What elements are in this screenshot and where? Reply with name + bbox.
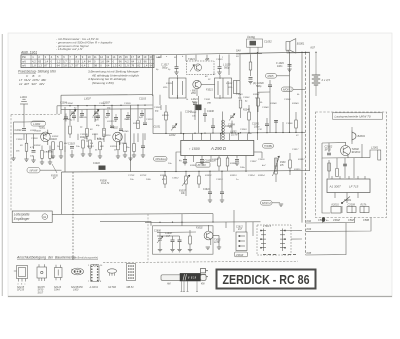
- svg-text:12 d07 9d7 43V: 12 d07 9d7 43V: [19, 82, 45, 86]
- dashed bottom board line: [103, 261, 298, 262]
- svg-text:S817: S817: [38, 291, 44, 294]
- resistor R1050: [257, 98, 260, 106]
- matrix left coil column: [260, 229, 266, 252]
- capacitor CF4: [106, 114, 110, 116]
- svg-text:C1003: C1003: [31, 138, 38, 140]
- svg-text:17: 17: [131, 55, 134, 59]
- wire vertical x309: [308, 52, 310, 170]
- svg-text:L1032: L1032: [169, 135, 176, 137]
- bus wires front-end: [53, 105, 153, 156]
- junction dots y222: [159, 221, 213, 223]
- wire T1051 collector down: [198, 96, 200, 134]
- label (2)C1049: [253, 82, 265, 88]
- output transistor T1602: [204, 225, 219, 247]
- package SF126 outline: [55, 265, 63, 280]
- wire K03 net: [306, 217, 372, 231]
- svg-text:C1608: C1608: [165, 233, 172, 235]
- wire vertical x130 front-end: [130, 106, 132, 172]
- wire left border vertical: [152, 55, 154, 96]
- package GF506 caption: [108, 286, 117, 289]
- svg-text:R1046: R1046: [243, 109, 250, 112]
- resistor R1610: [289, 160, 292, 168]
- label P1008: [280, 162, 286, 167]
- dashed board outline right: [316, 112, 387, 218]
- capacitor C1605 below IC: [183, 160, 187, 162]
- svg-text:ZF 460: ZF 460: [197, 163, 207, 167]
- potentiometer P1007: [182, 175, 190, 186]
- volume pot P1008: [273, 156, 280, 176]
- svg-text:63: 63: [38, 59, 41, 63]
- front-end labels row: [50, 102, 110, 165]
- svg-text:MON 2: MON 2: [262, 201, 271, 205]
- svg-text:C50Z: C50Z: [348, 219, 354, 222]
- label C1054 4n: [228, 123, 235, 129]
- labels IF strip: [154, 109, 251, 137]
- ground C1049b: [287, 69, 291, 71]
- capacitor C1011: [143, 123, 147, 125]
- svg-text:1,4: 1,4: [44, 59, 48, 63]
- tuner dashed box: [187, 61, 215, 75]
- svg-text:NF/AF: NF/AF: [30, 169, 38, 173]
- svg-text:R1614: R1614: [258, 174, 265, 177]
- svg-text:10: 10: [88, 55, 91, 59]
- svg-text:L2001: L2001: [371, 145, 379, 149]
- svg-text:LF 715: LF 715: [349, 185, 359, 189]
- transistor T2002: [341, 142, 351, 158]
- wire CF1: [73, 113, 75, 121]
- wire drops into filter area: [182, 210, 246, 232]
- ground C1057: [248, 82, 252, 84]
- svg-text:TONBL: TONBL: [264, 144, 273, 148]
- svg-text:R1047: R1047: [253, 93, 260, 96]
- svg-text:A 290 D: A 290 D: [210, 146, 226, 151]
- wire C1019: [142, 133, 144, 155]
- voltage table: [21, 55, 154, 68]
- wire vertical x59: [61, 172, 63, 214]
- ground row g5: [88, 154, 92, 156]
- bus mid y133: [153, 132, 306, 133]
- capacitor C1031: [193, 103, 197, 105]
- svg-text:C1004: C1004: [66, 102, 73, 105]
- svg-text:C1616: C1616: [258, 159, 265, 161]
- capacitor CF5: [114, 118, 118, 120]
- label L1002: [31, 121, 46, 126]
- svg-text:↑ 1500: ↑ 1500: [189, 147, 200, 151]
- svg-text:42: 42: [119, 64, 122, 68]
- svg-text:84: 84: [106, 59, 109, 63]
- label DIN tag: [154, 157, 168, 162]
- svg-text:L1001: L1001: [20, 96, 28, 99]
- output transformer U1001: [247, 37, 263, 54]
- svg-text:L1007: L1007: [84, 98, 91, 101]
- package GF506 outline: [107, 269, 116, 276]
- ground row g2: [59, 156, 63, 158]
- svg-text:B2001: B2001: [358, 134, 366, 138]
- package TO18 top view: [72, 268, 84, 275]
- svg-text:C1056: C1056: [286, 123, 293, 125]
- label TEMP rounded: [263, 144, 274, 149]
- svg-text:R1008: R1008: [133, 123, 140, 125]
- svg-text:R1701: R1701: [140, 175, 147, 177]
- svg-text:82: 82: [137, 64, 140, 68]
- svg-text:C1613: C1613: [216, 179, 223, 181]
- IC pins bottom: [176, 152, 246, 165]
- resistor R2005 box: [360, 207, 369, 213]
- wire matrix to right: [285, 230, 302, 239]
- package SF235 caption: [38, 286, 46, 295]
- svg-text:C1007: C1007: [99, 103, 106, 105]
- svg-text:64: 64: [106, 64, 109, 68]
- svg-text:1,9: 1,9: [125, 64, 129, 68]
- svg-text:19: 19: [143, 55, 146, 59]
- wire R1050: [258, 92, 271, 112]
- heading Anschlussbelegung: [16, 256, 98, 260]
- label T1602: [196, 228, 221, 245]
- capacitor C2005: [343, 164, 347, 166]
- svg-text:96: 96: [119, 59, 122, 63]
- wire vertical x289: [289, 53, 291, 134]
- svg-text:28%: 28%: [227, 87, 232, 89]
- svg-text:F1602: F1602: [196, 228, 203, 230]
- wire bus y222: [145, 214, 261, 236]
- svg-text:11: 11: [94, 55, 97, 59]
- ground C1610: [208, 200, 212, 202]
- svg-text:C50B: C50B: [363, 219, 369, 222]
- capacitor C1610: [208, 192, 212, 194]
- capacitor C2003: [327, 153, 331, 155]
- svg-text:T1021: T1021: [188, 58, 195, 61]
- svg-text:C1014: C1014: [80, 133, 87, 136]
- table caption ABB.1961: [20, 50, 37, 54]
- svg-text:SA8: SA8: [236, 50, 241, 53]
- IF transformer F1021: [169, 78, 186, 98]
- svg-text:1,3: 1,3: [38, 64, 42, 68]
- svg-text:MB 84: MB 84: [127, 286, 135, 289]
- capacitor C1017: [175, 67, 179, 69]
- speaker matrix connector box: [257, 225, 291, 255]
- svg-text:C1043: C1043: [236, 93, 243, 96]
- svg-text:28B: 28B: [204, 58, 210, 61]
- svg-text:10,7M: 10,7M: [231, 134, 237, 136]
- wire C1051: [267, 118, 283, 133]
- svg-text:R1048: R1048: [270, 102, 277, 105]
- resistor R2002: [336, 169, 339, 177]
- rod labels: [166, 282, 206, 285]
- svg-text:25u: 25u: [125, 147, 130, 149]
- wire antenna to board: [14, 120, 53, 162]
- resistor R1051: [295, 120, 298, 128]
- package SF215 caption: [17, 286, 25, 292]
- resistor R1605 below IC: [218, 158, 221, 166]
- svg-text:MON 1: MON 1: [283, 88, 292, 92]
- svg-text:C1001: C1001: [15, 129, 23, 132]
- svg-text:C1023: C1023: [216, 59, 223, 61]
- resistor R1020: [124, 144, 127, 152]
- electrolytic blob K02 line: [322, 217, 325, 222]
- svg-text:SF30 D: SF30 D: [352, 150, 361, 154]
- ground R1003: [48, 162, 52, 164]
- svg-text:R1010: R1010: [50, 139, 57, 141]
- dashed left board top: [11, 113, 61, 115]
- wire K02 net: [306, 217, 355, 223]
- capacitor C1019: [141, 146, 145, 148]
- svg-text:C1009: C1009: [124, 103, 131, 105]
- resistor R1003: [49, 150, 52, 158]
- ground C1607: [235, 163, 239, 165]
- svg-text:Ü1001: Ü1001: [247, 35, 255, 39]
- svg-text:Leiterplatte: Leiterplatte: [14, 212, 30, 216]
- svg-text:C1612: C1612: [172, 178, 179, 180]
- wire CF3: [97, 113, 99, 121]
- resistor R1021: [133, 144, 136, 152]
- svg-text:SF235: SF235: [17, 289, 25, 292]
- bottom pin labels of right board: [318, 219, 369, 222]
- resistor R1601: [164, 176, 167, 184]
- svg-text:P1007: P1007: [179, 190, 186, 192]
- ground T1602 emitter: [217, 247, 221, 249]
- svg-text:T1602: T1602: [214, 239, 221, 241]
- label MON1 rounded: [282, 87, 294, 92]
- resistor R1001: [25, 143, 28, 151]
- svg-text:(von Bestückungsseite): (von Bestückungsseite): [72, 256, 98, 259]
- svg-text:Empfänger: Empfänger: [14, 217, 31, 221]
- svg-text:98: 98: [94, 64, 97, 68]
- wire cap C1017 drop: [161, 54, 240, 80]
- svg-text:S34A: S34A: [54, 289, 60, 292]
- svg-text:F1022: F1022: [226, 83, 233, 85]
- svg-text:L500Z: L500Z: [236, 253, 244, 257]
- svg-text:K2001: K2001: [332, 204, 340, 207]
- svg-text:mV: mV: [22, 64, 26, 68]
- row resistor R1010: [52, 142, 55, 150]
- ground antenna feed: [11, 158, 15, 160]
- package SF235 outline: [37, 264, 47, 281]
- svg-text:C1701: C1701: [128, 175, 135, 177]
- svg-text:C1050: C1050: [284, 99, 291, 101]
- svg-text:R1601: R1601: [190, 165, 197, 167]
- svg-text:GF 506: GF 506: [108, 286, 117, 289]
- wire CF5: [115, 114, 117, 122]
- top bus wire: [153, 52, 311, 55]
- earphone jack B2001: [352, 127, 356, 142]
- svg-text:SF30: SF30: [325, 148, 332, 152]
- label P1007: [179, 190, 186, 195]
- svg-text:(Streuung 1.8%): (Streuung 1.8%): [92, 81, 114, 85]
- svg-text:S1: S1: [158, 57, 161, 59]
- ground R1020: [123, 155, 127, 157]
- svg-text:AM: AM: [166, 282, 171, 285]
- wire R1052: [250, 54, 252, 76]
- svg-text:A1 300T: A1 300T: [329, 185, 343, 189]
- resistor R1606 below IC: [226, 158, 229, 166]
- svg-text:C1030: C1030: [154, 107, 161, 109]
- wires below IC to bus: [176, 164, 246, 171]
- variable cap arrow C1035: [171, 124, 177, 131]
- svg-text:1,3: 1,3: [113, 64, 117, 68]
- net labels K: [307, 219, 312, 255]
- wire NF to bus: [40, 169, 62, 171]
- wires tuner lower: [153, 75, 240, 134]
- capacitor C1032: [203, 114, 207, 116]
- package SF126 caption: [54, 286, 62, 292]
- bus bottom y214: [52, 213, 213, 216]
- label MON2 rounded: [261, 201, 273, 206]
- svg-text:P1005: P1005: [51, 175, 58, 177]
- dashed vertical x148: [147, 214, 149, 262]
- svg-text:R1611: R1611: [160, 175, 167, 177]
- IC box A1300T: [327, 176, 370, 193]
- svg-text:28B: 28B: [206, 103, 211, 105]
- ground row g4: [81, 154, 85, 156]
- svg-text:R1049: R1049: [292, 102, 299, 105]
- svg-text:R1606: R1606: [230, 163, 237, 165]
- package MB84 outline: [127, 264, 136, 281]
- ground C1022: [217, 72, 221, 74]
- svg-text:C1607: C1607: [250, 161, 257, 163]
- wire R1051: [295, 112, 297, 133]
- electrolytic C1044 dark: [196, 105, 202, 111]
- capacitor C1057: [249, 78, 253, 80]
- resistor R1031: [239, 100, 242, 108]
- wire y221 bottom left segment: [100, 222, 151, 226]
- bus NF horizontal y171: [62, 171, 311, 172]
- svg-text:mV: mV: [22, 59, 26, 63]
- ground MON2: [279, 204, 283, 206]
- wire C1050: [269, 80, 271, 133]
- capacitor C1001: [22, 129, 26, 131]
- svg-text:5,7: 5,7: [63, 59, 67, 63]
- svg-text:C1614: C1614: [248, 174, 255, 177]
- wire R1021: [133, 133, 135, 155]
- label C1049 100n: [276, 62, 284, 68]
- svg-text:C1012: C1012: [146, 119, 153, 121]
- svg-text:C1049: C1049: [225, 125, 232, 128]
- ground C1611: [220, 200, 224, 202]
- svg-text:L1052: L1052: [230, 132, 237, 134]
- row resistor R1011: [60, 142, 63, 150]
- svg-text:SF245: SF245: [122, 130, 129, 133]
- cap C2009 box: [347, 207, 356, 213]
- svg-text:T1001: T1001: [39, 127, 46, 130]
- capacitor C1050: [268, 85, 272, 87]
- wires IF strip: [161, 105, 258, 134]
- svg-text:C1046: C1046: [207, 110, 214, 113]
- wire speaker to bus: [287, 52, 309, 54]
- svg-text:84: 84: [88, 59, 91, 63]
- ground R1021: [132, 155, 136, 157]
- resistor R1608: [189, 236, 192, 244]
- speaker LS1001: [286, 39, 296, 53]
- svg-text:1,3: 1,3: [137, 59, 141, 63]
- svg-text:100n: 100n: [240, 167, 246, 169]
- connector L500Z: [236, 232, 247, 251]
- svg-text:F1021: F1021: [206, 88, 213, 91]
- svg-text:100n: 100n: [277, 65, 283, 68]
- resistor R1033: [165, 112, 168, 120]
- package TO18 caption: [71, 286, 83, 292]
- resistor R1006: [103, 128, 106, 136]
- svg-text:0,9: 0,9: [75, 59, 79, 63]
- svg-text:1,4: 1,4: [82, 59, 86, 63]
- svg-text:R1030: R1030: [162, 115, 169, 117]
- transistor T1002: [113, 132, 123, 145]
- svg-text:R1013: R1013: [87, 146, 94, 148]
- rod end loop: [201, 275, 207, 281]
- board title strip: [333, 113, 383, 119]
- svg-text:C1612: C1612: [236, 226, 243, 228]
- ground R1002: [40, 162, 44, 164]
- wire inside filter box top: [157, 232, 196, 236]
- svg-text:87: 87: [44, 64, 47, 68]
- row resistor R1014: [99, 142, 102, 150]
- wire CF4: [107, 110, 109, 118]
- svg-text:K03: K03: [307, 227, 312, 231]
- antenna L1001: [20, 99, 28, 120]
- wire C1608: [172, 236, 174, 249]
- svg-text:64: 64: [131, 59, 134, 63]
- rod coil dark part: [180, 273, 201, 281]
- wire vertical x322: [322, 217, 324, 222]
- tuner trimmer arrow: [190, 65, 195, 72]
- IF coil L1052 winding: [222, 120, 225, 140]
- matrix right coil column: [280, 229, 286, 252]
- wire CF6: [127, 112, 129, 120]
- junction dots: [69, 52, 316, 173]
- label L1021: [191, 98, 198, 104]
- label MD5 rounded: [266, 74, 277, 79]
- ground C1019: [141, 155, 145, 157]
- resistor R1602: [198, 176, 201, 184]
- label P1005: [51, 175, 58, 180]
- IF transformer F1022: [215, 78, 232, 98]
- svg-text:L1004: L1004: [35, 130, 42, 133]
- svg-text:R1613: R1613: [230, 175, 237, 177]
- label L500Z tag: [235, 252, 248, 257]
- svg-text:28%: 28%: [162, 87, 167, 89]
- ground C1606b: [200, 163, 204, 165]
- svg-text:1,8: 1,8: [32, 64, 36, 68]
- dashed net vertical x73: [72, 172, 74, 261]
- svg-text:1,6: 1,6: [100, 59, 104, 63]
- capacitor C1002: [32, 151, 36, 153]
- wire K05 net: [306, 223, 347, 255]
- wire MD5: [277, 75, 290, 77]
- electrolytic C1016: [99, 166, 106, 170]
- row capacitor C1015: [70, 147, 74, 149]
- svg-text:1,2: 1,2: [57, 59, 61, 63]
- dashed left board edge: [10, 115, 12, 211]
- svg-text:13: 13: [106, 55, 109, 59]
- ground row g8: [128, 158, 132, 160]
- label L1052: [230, 132, 237, 137]
- filter box outline: [153, 226, 214, 254]
- wire MON1 to bus: [293, 88, 306, 90]
- wire MON2: [272, 202, 280, 204]
- switch diagonal S1001: [52, 164, 57, 173]
- ground R1001: [24, 159, 28, 161]
- label C1608 4n7: [165, 233, 172, 238]
- pin junction dots on bus: [183, 133, 240, 135]
- coil L2001: [378, 150, 381, 160]
- label P1006: [100, 180, 110, 185]
- svg-text:500p: 500p: [256, 85, 262, 88]
- capacitor C1034: [211, 126, 215, 128]
- wire short vertical at x61: [60, 95, 62, 114]
- svg-text:L900: L900: [73, 289, 79, 292]
- svg-text:64: 64: [57, 64, 60, 68]
- IC pins top: [184, 133, 248, 140]
- svg-text:1,4: 1,4: [144, 64, 148, 68]
